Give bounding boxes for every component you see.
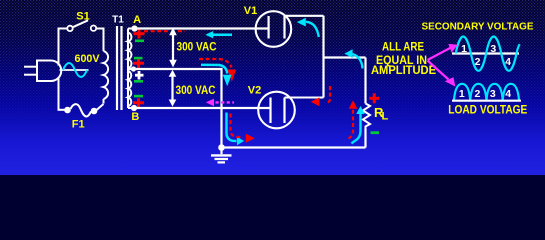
svg-text:A: A (133, 14, 141, 26)
ground (211, 148, 232, 163)
plug P1 (24, 61, 61, 82)
switch S1 (67, 20, 96, 31)
polarity plus mark above node B (133, 98, 144, 107)
center tap wire to ground (128, 69, 222, 148)
cyan curved arrow at branch corner (353, 54, 363, 69)
wire: primary loop top (58, 28, 68, 30)
magenta arrow to secondary waveform (428, 48, 452, 61)
svg-text:SECONDARY VOLTAGE: SECONDARY VOLTAGE (422, 21, 534, 33)
svg-text:T1: T1 (112, 14, 124, 25)
svg-text:LOAD VOLTAGE: LOAD VOLTAGE (448, 103, 527, 117)
wire: primary loop bottom (58, 109, 66, 111)
ground junction node (218, 144, 225, 151)
plus mark at RL top (369, 93, 379, 103)
branch to RL (324, 56, 366, 58)
wire A to V1 plate (135, 27, 269, 29)
red dashed curved arrow into V2 cathode (326, 86, 331, 103)
wire: primary loop left side (58, 29, 60, 110)
svg-text:V2: V2 (248, 85, 261, 97)
svg-text:600V: 600V (75, 53, 101, 65)
node B (131, 105, 137, 111)
svg-text:L: L (382, 111, 389, 123)
bottom rail wire (222, 146, 366, 148)
cyan curved arrow into V1 (306, 22, 319, 37)
svg-text:2: 2 (474, 88, 480, 100)
red dashed arrow curving down at center tap (199, 59, 232, 68)
svg-text:V1: V1 (244, 5, 257, 17)
wire RL bottom to rail (364, 129, 366, 148)
tube V1 (256, 11, 292, 47)
cyan arrow left on top wire (205, 31, 232, 38)
polarity minus mark above center tap (134, 57, 143, 60)
magenta dashed arrow pointing left above B wire (216, 101, 235, 103)
polarity minus mark lower secondary (134, 95, 143, 98)
svg-text:1: 1 (459, 88, 465, 100)
center tap node (131, 66, 136, 71)
secondary voltage sine wave (456, 37, 520, 71)
svg-text:4: 4 (505, 56, 511, 68)
secondary voltage waveform axis (452, 52, 519, 54)
transformer T1 primary winding (104, 29, 109, 104)
right rail from V1 cathode down (322, 16, 324, 98)
svg-text:F1: F1 (72, 118, 85, 130)
svg-text:3: 3 (490, 88, 496, 100)
polarity plus mark above center tap (133, 59, 144, 68)
half cycle numbers (461, 43, 511, 68)
svg-text:B: B (131, 111, 139, 123)
V2 cathode lead (285, 96, 324, 98)
svg-text:ALL ARE: ALL ARE (382, 40, 424, 54)
svg-text:2: 2 (475, 56, 481, 68)
red dashed arrow up at RL (349, 110, 354, 139)
transformer T1 secondary winding (128, 29, 135, 109)
polarity minus mark below center tap (134, 80, 143, 83)
polarity plus mark below node A (134, 29, 145, 39)
cyan arrow curving down at center tap (201, 65, 227, 74)
cyan arrow on bottom rail (227, 113, 237, 142)
polarity minus mark upper secondary (135, 40, 144, 43)
white polarity plus mark below center tap (135, 71, 144, 80)
svg-text:4: 4 (505, 88, 511, 100)
svg-text:300 VAC: 300 VAC (177, 41, 217, 53)
resistor RL (363, 104, 370, 129)
svg-text:AMPLITUDE: AMPLITUDE (371, 63, 436, 77)
fuse F1 (64, 107, 71, 114)
load voltage waveform (454, 84, 519, 100)
tube V2 (258, 92, 295, 129)
white measurement double arrow 2 (169, 70, 177, 107)
red dashed arrow on bottom rail (231, 114, 244, 138)
wire fuse to primary winding (97, 104, 104, 110)
red dashed current flow on top wire (144, 30, 185, 32)
svg-text:300 VAC: 300 VAC (176, 85, 216, 97)
cyan arrow up at RL (352, 114, 361, 144)
transformer core (116, 26, 118, 110)
V1 cathode lead (285, 15, 324, 17)
AC source sine symbol (60, 69, 89, 71)
svg-text:3: 3 (490, 43, 496, 55)
ALL ARE EQUAL IN AMPLITUDE label (371, 40, 436, 78)
node A (131, 25, 137, 31)
white measurement double arrow 1 (169, 28, 177, 68)
minus mark at RL bottom (371, 131, 380, 134)
magenta arrow to load waveform (428, 61, 449, 80)
svg-text:S1: S1 (76, 10, 89, 22)
wire B to V2 plate (134, 107, 271, 109)
svg-text:1: 1 (461, 43, 467, 55)
